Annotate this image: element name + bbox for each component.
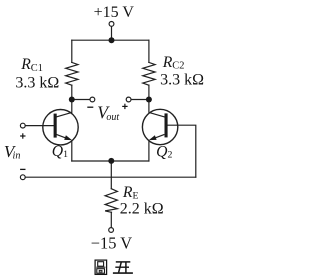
transistor Q1 emitter arrow [56,134,68,138]
node C1 junction dot [69,97,75,103]
node C2 junction dot [146,97,152,103]
terminal Vout plus [126,97,131,102]
label Vin plus sign [20,133,25,138]
resistor RC1 [66,62,78,85]
svg-text:Q2: Q2 [156,143,172,160]
terminal Vin minus [20,175,25,180]
svg-text:2.2 kΩ: 2.2 kΩ [120,200,164,217]
terminal +15V [109,22,114,27]
transistor Q2 body [142,109,177,144]
wire top rail [72,39,149,41]
wire node C1 to Vout minus terminal [72,99,90,101]
svg-text:RC2: RC2 [162,54,185,72]
wire RE to -15V terminal [110,212,112,227]
wire Q2 emitter lead [148,141,150,161]
wire Q2 base lead to right [168,125,196,177]
svg-text:Vin: Vin [4,142,21,161]
wire Q1 emitter lead [71,141,73,161]
transistor Q1 body [43,110,78,145]
svg-text:Vout: Vout [97,103,119,124]
svg-text:3.3 kΩ: 3.3 kΩ [160,71,204,88]
transistor Q2 base bar [165,113,168,137]
svg-text:+15 V: +15 V [94,4,135,21]
wire left branch upper [71,40,73,62]
wire node C2 to Vout plus terminal [131,99,149,101]
svg-text:3.3 kΩ: 3.3 kΩ [15,74,59,91]
svg-text:Q1: Q1 [52,143,68,160]
terminal Vin plus [20,123,25,128]
wire +15V stub [111,26,113,40]
label Vout minus sign [87,106,93,108]
svg-text:−15 V: −15 V [91,234,132,253]
wire Q1 base lead [25,125,53,127]
wire bottom input run [25,176,196,178]
svg-text:RC1: RC1 [20,56,43,74]
resistor RC2 [143,62,155,85]
label Vout plus sign [122,104,127,109]
wire RC2 to node C2 [148,85,150,99]
resistor RE [105,189,117,213]
wire RC1 to node C1 [71,85,73,99]
wire Q1 collector [56,100,71,117]
terminal Vout minus [90,97,95,102]
caption character WU (five) [113,262,133,273]
junction dot top rail [109,37,115,43]
transistor Q2 emitter arrow [153,134,165,138]
wire right branch upper [148,40,150,62]
transistor Q1 base bar [54,114,57,138]
label Vin minus sign [20,168,25,170]
wire rail to RE [110,161,112,189]
wire emitter rail [72,160,149,162]
caption character TU (figure) [95,260,107,274]
emitter rail junction dot [108,158,114,164]
terminal -15V [109,228,114,233]
svg-text:RE: RE [122,184,139,202]
wire Q2 collector [149,100,165,117]
